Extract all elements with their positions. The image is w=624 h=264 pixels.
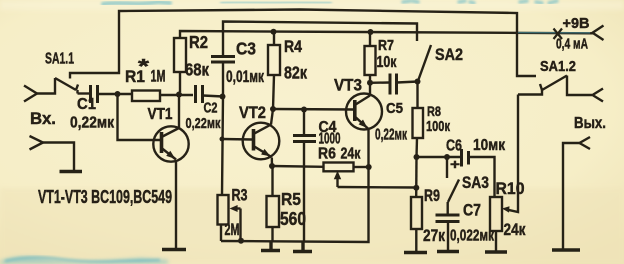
connector +9V terminal [593,26,604,41]
connector Вых. output terminal [593,89,604,102]
svg-text:0,22мк: 0,22мк [375,127,408,144]
wiper R6 arrow [336,178,338,187]
wire: collector feed to VT3 base [273,108,354,111]
wire: input ground [43,143,74,171]
svg-text:VT1: VT1 [148,106,173,123]
blue print remnant top-left [103,2,330,4]
svg-text:100к: 100к [426,118,450,135]
ground bus T2 [293,242,312,252]
wire: input to SA1.1 [37,78,55,94]
wire: R6 right lead to VT3 emitter [354,166,369,168]
wire: branch to VT2 base [222,138,252,141]
svg-text:*: * [138,56,149,78]
resistor R3 (trimmer) [218,195,229,225]
svg-text:10мк: 10мк [473,137,506,154]
wire: down to VT1 base [118,94,161,140]
svg-text:Вх.: Вх. [30,110,56,128]
wire: R8 top lead [416,82,418,109]
wire: R2 bottom lead [179,72,181,92]
blue print remnant bottom-left band [0,257,168,264]
svg-text:R3: R3 [232,186,248,205]
switch SA1.1 contact stub [76,90,78,94]
transistor VT1 [153,126,188,161]
svg-text:2M: 2M [225,220,240,239]
svg-text:R10: R10 [496,179,525,198]
ground VT1 emitter [162,248,186,252]
node base branch [220,137,225,142]
node SA2 pole [415,79,421,85]
svg-text:1M: 1M [151,68,166,86]
svg-text:C7: C7 [463,201,481,220]
node VT3 collector [367,80,373,86]
ground output [552,248,580,251]
resistor R8 [413,108,424,138]
wire: R7 leads [369,32,371,83]
capacitor C6 (electrolytic) [462,149,469,167]
svg-text:0,22мк: 0,22мк [186,115,221,132]
svg-text:C6: C6 [446,138,462,155]
wire: C2 to VT2 base net [203,96,223,97]
node R4 top [271,29,277,35]
wire: R9 bottom lead [415,229,417,252]
svg-text:560: 560 [280,209,306,229]
capacitor C3 [211,57,235,63]
node R7 top [368,29,374,35]
node VT1 base net [115,91,121,97]
wire: output ground [563,143,580,249]
wiper R10 from SA1.2 [508,95,518,213]
measuring point X on +9V [554,29,563,40]
wire: C4 leads [303,110,305,242]
svg-text:68к: 68к [185,60,209,80]
capacitor C5 [390,74,397,95]
wire: emitter to R6 [272,165,324,168]
svg-text:27к: 27к [423,226,445,245]
svg-text:VT3: VT3 [334,76,362,95]
node VT2 collector [270,106,276,112]
ground C7 [437,250,459,253]
resistor R2 [174,38,186,72]
wire: C3 bottom to base net, down to R3 [222,62,223,195]
svg-text:VT2: VT2 [239,103,266,122]
resistor R6 (trimmer) [324,163,354,172]
wire: R4 leads [273,32,274,109]
wire: R10 bottom lead [495,231,497,252]
wire: R3 bottom lead [220,225,222,242]
resistor R10 (potentiometer) [490,197,502,231]
wire: VT3 emitter down to ground bus [221,129,369,242]
node C4 top [301,107,307,113]
svg-text:SA1.1: SA1.1 [45,51,74,68]
wire: R1 to C2 [160,94,193,96]
wire: C5 to SA2 pole [397,82,418,83]
capacitor C2 [196,85,203,103]
connector output ground terminal [580,137,591,149]
svg-text:+9В: +9В [563,16,590,32]
svg-text:C3: C3 [236,39,256,59]
svg-text:0,01мк: 0,01мк [226,68,265,86]
svg-text:0,22мк: 0,22мк [70,115,114,132]
switch SA2 blade [418,45,431,82]
capacitor C7 [436,215,460,222]
switch SA1.1 blade [55,78,78,90]
svg-text:SA2: SA2 [435,45,463,64]
node R9 top [413,185,419,191]
wire: R5 leads [271,166,273,241]
transistor VT2 [243,123,280,160]
blue print remnant top-right ticks [403,1,557,3]
wire: SA1.1 to C1 [78,92,91,94]
svg-text:VT1-VT3 BC109,BC549: VT1-VT3 BC109,BC549 [38,186,172,207]
svg-text:24к: 24к [504,221,527,239]
capacitor C1 [91,85,98,103]
capacitor C4 [293,136,316,142]
resistor R4 [268,45,280,75]
svg-text:R8: R8 [427,103,441,119]
node R8 bottom [414,154,420,160]
svg-text:R2: R2 [189,32,208,52]
wire: R8 node down to R9 [415,157,418,197]
svg-text:Вых.: Вых. [574,115,606,132]
svg-text:SA3: SA3 [462,173,489,192]
svg-text:SA1.2: SA1.2 [540,59,576,75]
svg-text:R5: R5 [281,189,301,209]
resistor R9 [411,197,422,229]
svg-text:R9: R9 [424,186,440,205]
transistor VT3 [346,94,382,130]
svg-text:C1: C1 [77,96,96,113]
node VT2 base net [220,94,226,100]
connector input ground terminal [30,136,44,150]
switch SA1.2 blade [540,76,567,91]
resistor R7 [365,46,376,75]
ground R10 [485,250,507,253]
resistor R1 [132,91,160,102]
svg-text:+: + [450,156,460,172]
svg-text:R7: R7 [378,38,394,54]
svg-text:R4: R4 [284,38,303,56]
wire: collector to C5 [370,81,390,84]
ground R9 [404,251,427,254]
wire: top bypass rail [70,10,536,79]
node VT2 emitter [269,163,275,169]
wire: +9V supply rail [180,31,593,38]
wire: C1 to R1 [98,93,132,95]
switch SA3 contact stub [446,157,448,178]
wire: node to C6 [417,156,462,158]
wiper R3 arrow [237,207,241,209]
connector Вх. input terminal [24,86,37,102]
svg-text:0,4 мА: 0,4 мА [556,37,588,53]
wire: R6 wiper to R9 node [338,186,417,189]
wire: SA3 to C7 [447,202,449,214]
svg-text:24к: 24к [341,146,362,163]
switch SA3 blade [448,180,459,203]
ground input [60,170,83,173]
switch SA1.2 pole wire [518,90,542,95]
svg-text:0,022мк: 0,022мк [450,228,495,245]
wire: C6 to R10 [469,157,495,197]
wire: SA1.2 to output [567,76,592,96]
resistor R5 [267,196,280,227]
node R3 wiper bus [238,238,244,244]
node R6 emitter junction [366,164,372,170]
ground bus T1 [261,241,280,251]
wire: R3 wiper down to bus [239,209,241,242]
node SA3 tap [444,154,450,160]
svg-text:82к: 82к [284,63,307,83]
svg-text:C5: C5 [386,100,403,117]
wire: C3/SA2 rail [223,22,417,58]
svg-text:10к: 10к [377,54,398,71]
wire: C7 bottom lead [447,222,449,252]
svg-text:R6: R6 [318,146,336,163]
node VT1 collector [176,92,182,98]
scan tint on wire [518,32,590,34]
wire: R8 bottom lead [415,138,418,157]
